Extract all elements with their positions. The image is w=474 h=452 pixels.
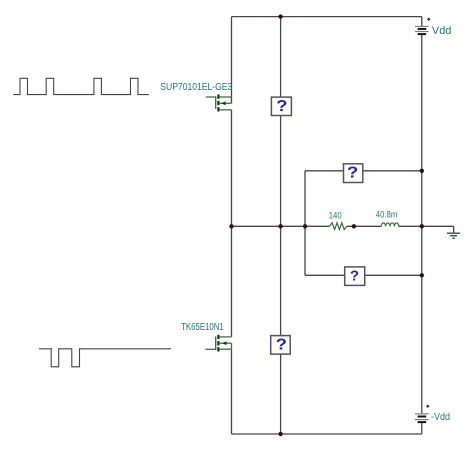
node switch net at loop column (303, 224, 307, 228)
node switch net at M1/M2 column (229, 224, 233, 228)
svg-text:Vdd: Vdd (432, 25, 452, 37)
wire middle (inductor to ground) (399, 225, 454, 227)
wire bottom loop right segment (365, 274, 422, 276)
wire bottom rail (232, 433, 422, 435)
unknown block U2 (271, 336, 291, 355)
node top loop / right vertical (420, 169, 424, 173)
battery V1 Vdd (415, 18, 430, 34)
wire left vertical upper (top rail to M1 drain) (231, 17, 233, 104)
inductor L1 40.8m (381, 223, 399, 227)
battery V2 -Vdd (415, 405, 429, 422)
wire top rail (232, 16, 422, 18)
node switch net at U column (278, 224, 282, 228)
resistor R1 140 (330, 223, 347, 230)
wire top loop right segment (363, 170, 422, 172)
svg-text:SUP70101EL-GE3: SUP70101EL-GE3 (160, 82, 232, 93)
wire third vertical (loop left side) (304, 171, 306, 275)
unknown block U4 (345, 267, 365, 286)
svg-text:140: 140 (329, 210, 342, 220)
wire top loop left segment (305, 170, 344, 172)
transistor M1 SUP70101EL-GE3 (206, 94, 232, 111)
svg-text:40.8m: 40.8m (376, 209, 398, 219)
wire bottom battery drop (421, 423, 423, 434)
node between R1 and L1 (352, 224, 356, 228)
wire second vertical lower (U2 to bottom rail) (280, 354, 282, 434)
svg-text:TK65E10N1: TK65E10N1 (181, 322, 224, 333)
wire second vertical upper (top rail to U1) (280, 17, 282, 98)
svg-text:?: ? (350, 268, 359, 285)
svg-text:?: ? (347, 164, 358, 181)
wire right vertical (battery to battery) (421, 35, 423, 413)
wire left vertical middle (M1 to M2) (231, 110, 233, 337)
transistor M2 TK65E10N1 (205, 335, 231, 352)
pulse source VG1 waveform (13, 78, 149, 94)
node output net at right vertical (420, 224, 424, 228)
pulse source VG2 waveform (39, 349, 171, 367)
wire left vertical lower (M2 source to bottom rail) (231, 349, 233, 434)
svg-text:?: ? (276, 336, 287, 353)
unknown block U3 (344, 164, 363, 183)
node bottom rail / U2 branch (278, 432, 282, 436)
ground (447, 226, 460, 238)
node bottom loop / right vertical (420, 273, 424, 277)
wire middle (resistor to inductor) (347, 225, 381, 227)
unknown block U1 (271, 97, 291, 115)
svg-text:-Vdd: -Vdd (431, 412, 450, 423)
wire middle (switch node to resistor) (232, 225, 330, 227)
wire second vertical middle (U1 to U2) (280, 116, 282, 336)
wire top battery drop (421, 17, 423, 26)
node top rail / U1 branch (278, 14, 282, 18)
svg-text:?: ? (276, 97, 287, 114)
wire bottom loop left segment (305, 274, 345, 276)
